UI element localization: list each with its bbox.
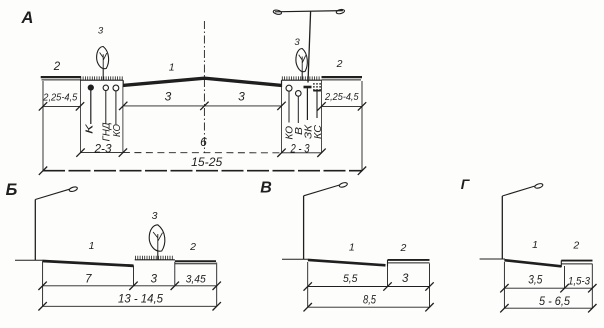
lamp pole V bbox=[303, 196, 305, 259]
svg-text:15-25: 15-25 bbox=[191, 157, 223, 169]
svg-text:1: 1 bbox=[532, 239, 538, 251]
street light pole A bbox=[308, 11, 311, 82]
luminaire G bbox=[534, 183, 543, 189]
green strip hatch B bbox=[135, 259, 175, 261]
curb V bbox=[387, 260, 389, 266]
svg-text:Г: Г bbox=[461, 176, 471, 192]
dim row2 V: 8,5 bbox=[308, 306, 430, 308]
utility K: sewer circle (filled) bbox=[88, 85, 94, 91]
luminaire B bbox=[69, 186, 78, 192]
utility ZK tee symbol bbox=[304, 86, 312, 89]
svg-text:3,45: 3,45 bbox=[186, 274, 207, 286]
svg-text:3: 3 bbox=[165, 90, 172, 104]
svg-text:2: 2 bbox=[53, 61, 61, 73]
svg-text:13 - 14,5: 13 - 14,5 bbox=[118, 292, 163, 306]
luminaire right bbox=[336, 9, 345, 15]
dim row2 G: 5 - 6,5 bbox=[504, 307, 592, 309]
svg-text:5,5: 5,5 bbox=[343, 273, 358, 285]
right red-line boundary vertical bbox=[361, 81, 363, 171]
utility KO right circle bbox=[286, 85, 292, 91]
left sidewalk (2) bbox=[41, 76, 81, 78]
svg-text:В: В bbox=[260, 179, 272, 196]
svg-text:8,5: 8,5 bbox=[363, 293, 376, 306]
extension verticals V bbox=[307, 262, 309, 307]
svg-text:2: 2 bbox=[336, 58, 343, 70]
section B (Б) bbox=[6, 181, 221, 311]
ground line V bbox=[282, 258, 308, 260]
left green strip hatch bbox=[80, 79, 123, 81]
svg-text:КС: КС bbox=[313, 124, 324, 139]
dim 2-3 right strip bbox=[282, 152, 322, 154]
ground line B bbox=[15, 259, 43, 261]
svg-text:3: 3 bbox=[402, 273, 409, 285]
svg-text:А: А bbox=[21, 9, 34, 27]
svg-text:3: 3 bbox=[294, 37, 300, 48]
carriageway crown (1) bbox=[123, 78, 281, 85]
dim row1 G: 3,5 / 1,5-3 bbox=[504, 287, 592, 289]
luminaire V bbox=[339, 182, 348, 188]
svg-text:2-3: 2-3 bbox=[93, 144, 112, 156]
svg-text:3: 3 bbox=[238, 90, 245, 104]
sidewalk B (2) bbox=[175, 260, 216, 262]
dim row1 V: 5,5 / 3 bbox=[308, 286, 430, 288]
extension verticals G bbox=[503, 262, 505, 308]
svg-text:КО: КО bbox=[112, 124, 123, 137]
left red-line boundary vertical bbox=[42, 81, 44, 171]
dim 15-25 overall bbox=[43, 170, 362, 172]
left strip border verticals bbox=[80, 80, 82, 152]
dim 6 carriageway (dashed) bbox=[123, 152, 282, 154]
dim 2-3 left strip bbox=[81, 152, 123, 154]
svg-text:3,5: 3,5 bbox=[528, 273, 542, 287]
svg-text:2: 2 bbox=[399, 242, 406, 254]
carriageway V (1) bbox=[308, 260, 386, 265]
right strip border verticals bbox=[281, 86, 283, 153]
extension verticals B bbox=[42, 261, 44, 306]
svg-text:2,25-4,5: 2,25-4,5 bbox=[324, 91, 359, 103]
svg-text:Б: Б bbox=[6, 181, 18, 199]
svg-text:7: 7 bbox=[85, 273, 92, 285]
lamp pole G bbox=[501, 196, 503, 259]
section A: street cross-section bbox=[21, 9, 367, 175]
dim row2 B: 13 - 14,5 bbox=[43, 305, 217, 307]
svg-text:6: 6 bbox=[200, 135, 207, 149]
right green strip hatch bbox=[282, 79, 322, 81]
sidewalk G (2) bbox=[561, 260, 592, 262]
svg-text:2: 2 bbox=[189, 241, 196, 253]
right sidewalk (2) bbox=[322, 76, 363, 78]
svg-text:1: 1 bbox=[349, 241, 355, 253]
luminaire left bbox=[273, 9, 282, 15]
road axis centerline bbox=[203, 21, 205, 153]
svg-text:2 - 3: 2 - 3 bbox=[290, 144, 310, 156]
utility KO circle bbox=[113, 85, 119, 91]
section V (В) bbox=[260, 179, 433, 311]
utility GND circle bbox=[103, 85, 108, 90]
svg-text:2,25-4,5: 2,25-4,5 bbox=[42, 92, 77, 104]
lamp pole B bbox=[34, 200, 36, 261]
ground line G bbox=[480, 258, 505, 260]
dim 3 / 3 lanes bbox=[123, 105, 281, 107]
svg-text:1: 1 bbox=[169, 62, 175, 74]
svg-text:1: 1 bbox=[89, 240, 95, 252]
svg-text:1,5-3: 1,5-3 bbox=[568, 275, 591, 287]
carriageway B (1) bbox=[43, 261, 134, 266]
section G (Г) bbox=[461, 176, 597, 312]
svg-text:5 - 6,5: 5 - 6,5 bbox=[539, 294, 570, 308]
svg-text:3: 3 bbox=[151, 273, 158, 285]
utility V circle bbox=[296, 91, 302, 97]
svg-text:3: 3 bbox=[152, 210, 158, 222]
carriageway G (1) bbox=[504, 260, 561, 266]
curb G bbox=[560, 260, 562, 267]
utility KS dotted-square symbol bbox=[313, 83, 315, 85]
svg-text:3: 3 bbox=[98, 26, 104, 37]
sidewalk V (2) bbox=[388, 259, 430, 261]
dim row1 B: 7 / 3 / 3,45 bbox=[43, 285, 217, 287]
svg-text:2: 2 bbox=[572, 239, 579, 251]
